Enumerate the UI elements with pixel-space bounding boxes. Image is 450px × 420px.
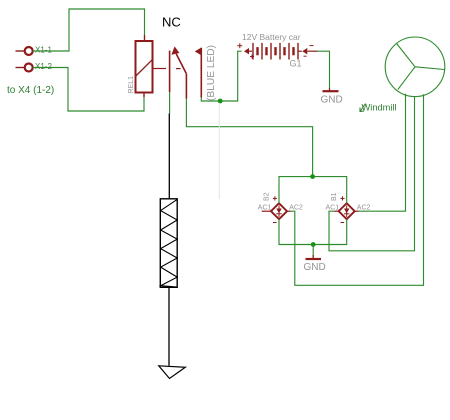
battery left pin arrow xyxy=(244,48,249,54)
blue led contact pin xyxy=(200,48,202,98)
svg-text:12V Battery car: 12V Battery car xyxy=(242,32,301,42)
svg-text:GND: GND xyxy=(304,262,326,273)
ground symbol GND (bridge) xyxy=(306,245,322,260)
battery minus signs xyxy=(304,46,314,57)
wire resistor to ground arrow xyxy=(168,287,170,366)
svg-text:G1: G1 xyxy=(290,59,302,69)
wire net common contact to bridge top xyxy=(186,99,312,177)
relay NC fixed contact xyxy=(169,51,171,93)
label B2 minus xyxy=(273,222,277,224)
bridge rectifier B2 xyxy=(262,203,291,219)
wire windmill line3 to B2 AC2 xyxy=(291,94,424,285)
junction on led net xyxy=(218,99,223,104)
svg-text:GND: GND xyxy=(321,95,343,106)
wire net NC to resistor (black) xyxy=(168,114,170,199)
svg-text:X1-2: X1-2 xyxy=(35,62,52,71)
resistor R1 zigzag xyxy=(161,199,178,287)
B1 AC1 pin xyxy=(335,210,339,212)
svg-text:B1: B1 xyxy=(331,192,338,201)
connector pin X1-2 xyxy=(16,64,33,72)
relay common contact xyxy=(185,74,187,99)
B1 diode xyxy=(344,206,349,218)
battery plus sign xyxy=(237,43,254,58)
battery right pin arrow xyxy=(302,48,307,54)
resistor R1 box xyxy=(160,199,177,287)
svg-text:AC2: AC2 xyxy=(357,205,371,212)
windmill generator xyxy=(385,37,445,97)
relay lever arrow xyxy=(171,46,179,54)
faint ghost wire xyxy=(218,103,220,199)
ground arrow (earth) xyxy=(159,366,186,379)
B2 AC1 pin xyxy=(262,210,271,212)
svg-text:AC2: AC2 xyxy=(289,205,303,212)
B2 diamond xyxy=(271,203,287,219)
relay lever xyxy=(176,54,186,74)
junction bridge top xyxy=(310,174,315,179)
junction bridge bottom xyxy=(311,242,316,247)
battery G1 xyxy=(237,43,317,60)
B1 diamond xyxy=(339,203,355,219)
svg-text:X1-1: X1-1 xyxy=(35,46,52,55)
svg-text:(BLUE LED): (BLUE LED) xyxy=(206,45,217,101)
label B2 plus xyxy=(273,196,277,200)
battery cells xyxy=(253,43,298,60)
B2 diode xyxy=(276,206,281,218)
wire bridge top rail xyxy=(279,177,347,204)
wire bridge bottom rail xyxy=(279,219,347,244)
B2 AC2 pin xyxy=(287,210,291,212)
svg-text:Windmill: Windmill xyxy=(362,103,397,113)
wire net pin X1-1 to relay coil top xyxy=(33,9,145,51)
label B1 plus xyxy=(340,196,344,200)
relay REL1 coil xyxy=(136,35,181,97)
windmill label arrow xyxy=(360,104,366,112)
connector pin X1-1 xyxy=(16,47,33,55)
wire net pin X1-2 to relay coil bottom xyxy=(33,68,144,112)
wire windmill line1 to B1 AC2 xyxy=(359,94,406,211)
blue led contact arrow xyxy=(195,48,201,56)
ground symbol GND (battery) xyxy=(323,88,339,91)
svg-text:AC1: AC1 xyxy=(326,205,340,212)
bridge rectifier B1 xyxy=(335,203,359,219)
svg-text:REL1: REL1 xyxy=(128,76,135,94)
svg-text:to X4 (1-2): to X4 (1-2) xyxy=(7,85,54,96)
svg-text:AC1: AC1 xyxy=(258,205,272,212)
svg-text:B2: B2 xyxy=(264,192,271,201)
wire windmill line2 to B1 AC1 xyxy=(329,97,415,251)
label B1 minus xyxy=(341,222,345,224)
wire net battery minus to gnd xyxy=(318,51,330,88)
wire net NC contact to resistor (green part) xyxy=(169,92,171,113)
B1 AC2 pin xyxy=(355,210,359,212)
wire net blue led to battery plus xyxy=(201,51,241,101)
svg-text:NC: NC xyxy=(162,15,181,30)
